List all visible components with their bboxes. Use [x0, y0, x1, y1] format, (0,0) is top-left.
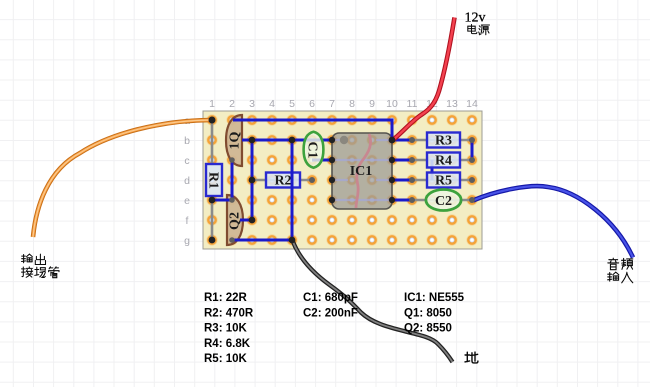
svg-text:e: e [184, 195, 190, 207]
svg-text:1: 1 [209, 98, 215, 110]
wire col3 vertical [251, 140, 254, 220]
svg-text:b: b [184, 135, 190, 147]
resistor R4 lead [412, 159, 472, 162]
svg-text:13: 13 [446, 98, 458, 110]
svg-text:R5: 10K: R5: 10K [204, 353, 248, 365]
svg-text:Q1: 8050: Q1: 8050 [404, 307, 452, 319]
wire audio input (blue) [473, 186, 633, 257]
IC U1/IC1 body (NE555 timer) [332, 133, 392, 209]
wire col5 vertical [291, 140, 294, 240]
wire IC to R5 [392, 179, 412, 182]
label 输入 [608, 272, 633, 283]
legend values [204, 292, 465, 365]
label 地 [465, 352, 478, 363]
column labels 1-14 [209, 98, 478, 110]
label 电源 [468, 25, 490, 35]
wire 12v power (red) [394, 18, 455, 140]
capacitor C2 body [426, 190, 461, 211]
IC1 pin1 marker [340, 136, 348, 144]
svg-text:R1: 22R: R1: 22R [204, 292, 248, 304]
label 输出 [22, 254, 46, 264]
svg-text:Q2: 8550: Q2: 8550 [404, 323, 452, 335]
svg-text:14: 14 [466, 98, 478, 110]
wire ground (black) [293, 241, 453, 363]
resistor R5 lead [412, 179, 472, 182]
transistor Q2 body [227, 195, 243, 245]
svg-text:IC1: IC1 [350, 164, 373, 179]
svg-text:C2: C2 [435, 194, 452, 209]
svg-text:f: f [186, 215, 189, 227]
svg-text:12v: 12v [465, 11, 486, 26]
wire Q2 base [240, 219, 252, 222]
label 音频 [608, 258, 633, 269]
lead end dots [229, 137, 475, 243]
capacitor C2 lead [412, 199, 472, 202]
svg-text:C1: 680pF: C1: 680pF [303, 292, 358, 304]
IC1 marking squiggle [356, 134, 371, 208]
resistor R2 lead [252, 179, 312, 182]
resistor R1 lead [211, 121, 214, 240]
svg-text:6: 6 [309, 98, 315, 110]
perfboard [203, 111, 482, 249]
svg-text:R4: 6.8K: R4: 6.8K [204, 338, 251, 350]
svg-text:11: 11 [407, 98, 418, 110]
svg-text:R1: R1 [206, 172, 221, 189]
capacitor C1 body [304, 132, 324, 168]
label 接场管 [22, 267, 60, 278]
wire C1 to IC pin [312, 159, 332, 162]
resistor R3 lead [412, 139, 472, 142]
resistor R2 body [266, 173, 300, 188]
svg-text:R2: 470R: R2: 470R [204, 307, 254, 319]
wire node e to Q2 [212, 199, 232, 202]
svg-text:3: 3 [249, 98, 255, 110]
IC1 internal pin traces [332, 140, 392, 200]
node dots over wires [209, 117, 476, 244]
wire output (orange) [33, 120, 211, 237]
svg-text:8: 8 [349, 98, 355, 110]
svg-text:d: d [184, 175, 190, 187]
wire ground row g [232, 239, 292, 242]
wire R3 right to R4 right [471, 140, 474, 160]
resistor R1 body [206, 164, 222, 196]
wire Q1 emitter to Q2 emitter [231, 160, 234, 200]
svg-text:R4: R4 [435, 154, 452, 169]
svg-text:9: 9 [369, 98, 375, 110]
resistor R3 body [427, 133, 460, 148]
svg-text:R2: R2 [274, 174, 291, 189]
row labels a-g [184, 115, 190, 247]
transistor Q1 body [226, 115, 242, 166]
svg-text:R3: R3 [435, 134, 452, 149]
svg-text:R5: R5 [435, 174, 452, 189]
wire IC to R4 [392, 159, 412, 162]
svg-text:C1: C1 [305, 141, 320, 158]
resistor R5 body [427, 173, 460, 188]
wire IC to C2 [392, 199, 412, 202]
svg-text:c: c [184, 155, 189, 167]
svg-text:2: 2 [229, 98, 235, 110]
svg-text:g: g [184, 235, 190, 247]
svg-text:10: 10 [386, 98, 398, 110]
svg-text:IC1: NE555: IC1: NE555 [404, 292, 465, 304]
svg-text:5: 5 [289, 98, 295, 110]
svg-text:7: 7 [329, 98, 335, 110]
svg-text:4: 4 [269, 98, 275, 110]
wire R4 to R5 col12 [431, 160, 434, 180]
svg-text:R3: 10K: R3: 10K [204, 323, 248, 335]
svg-text:C2: 200nF: C2: 200nF [303, 307, 358, 319]
wire IC to R3 [392, 139, 412, 142]
svg-text:1Q: 1Q [228, 131, 243, 149]
junction node dots [209, 137, 396, 244]
resistor R4 body [427, 153, 460, 168]
wire Q1 collector to power node [233, 120, 392, 140]
wire Q1 base row b [242, 139, 332, 142]
